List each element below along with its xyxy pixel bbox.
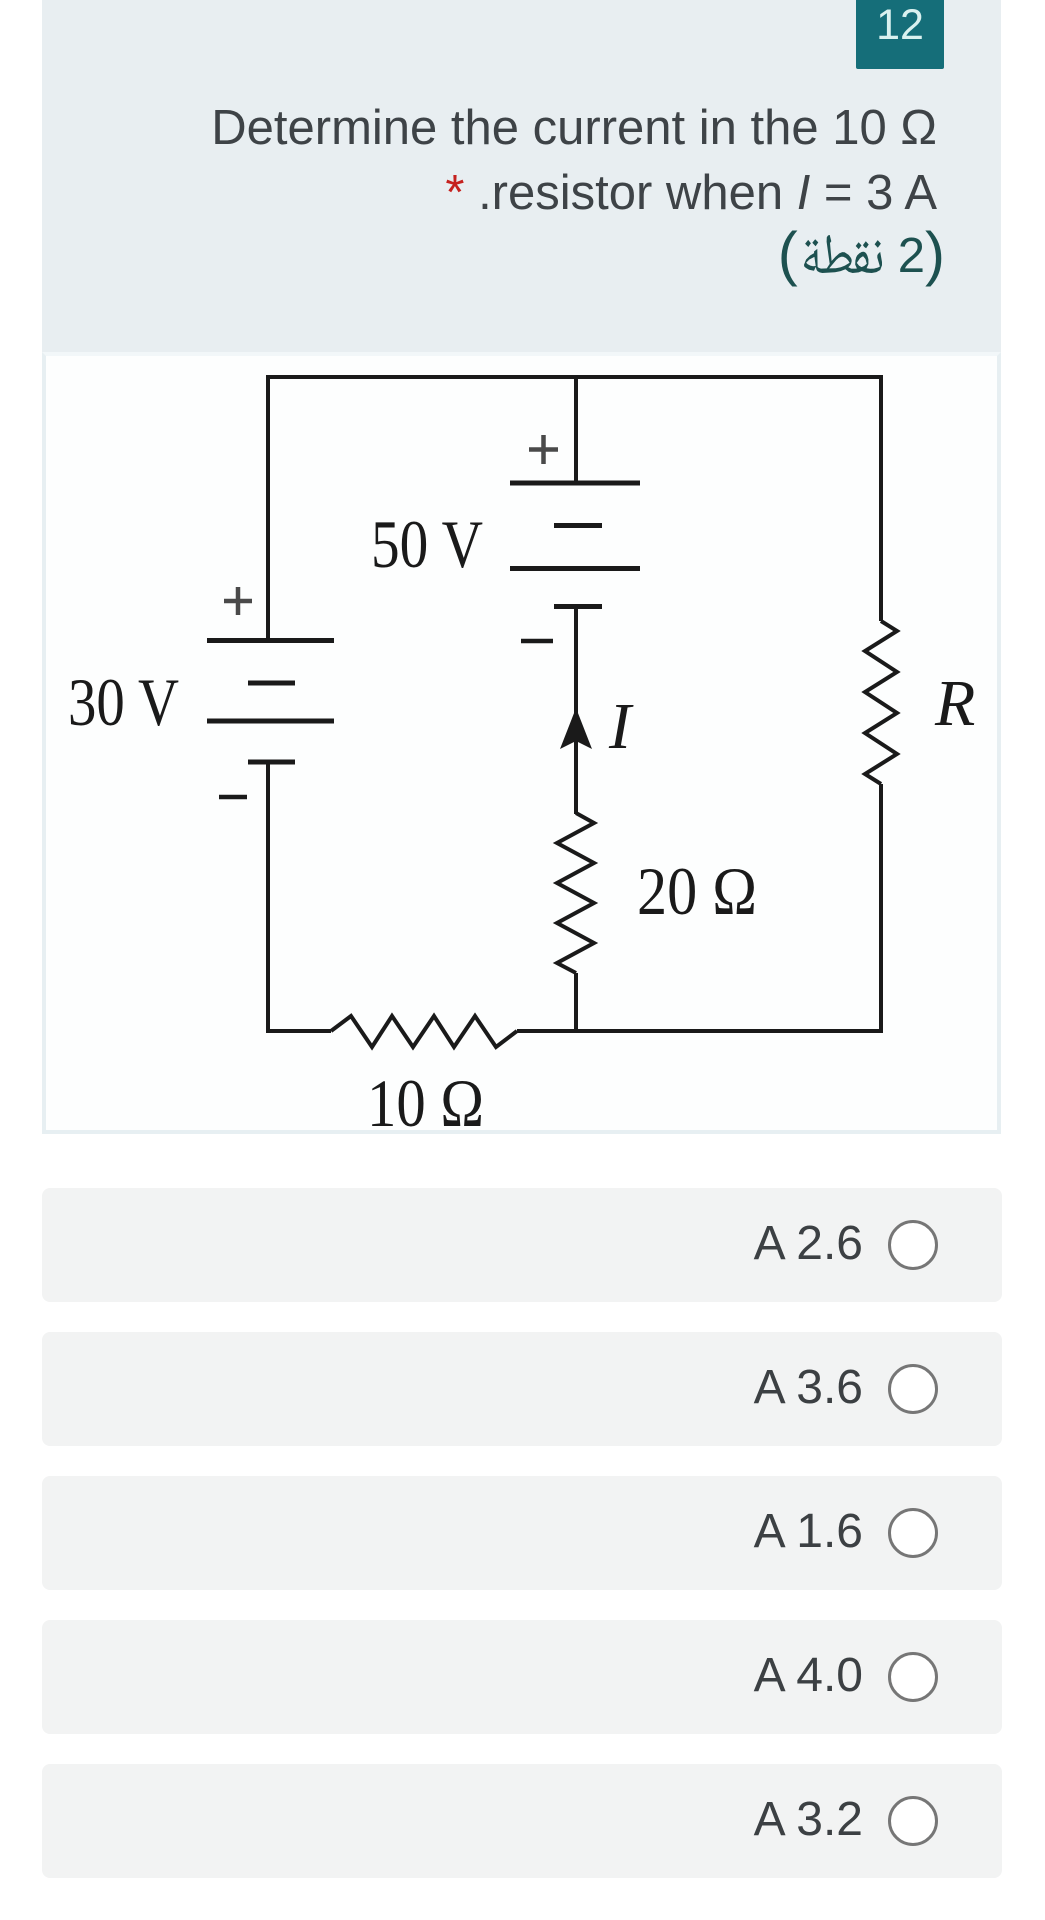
wire 50V stem from top rail bbox=[574, 375, 578, 483]
radio button 3 bbox=[888, 1508, 938, 1558]
question text bbox=[42, 96, 937, 226]
answer option A 4.0 bbox=[42, 1620, 1002, 1734]
svg-text:10 Ω: 10 Ω bbox=[367, 1065, 484, 1141]
svg-text:I: I bbox=[608, 690, 634, 763]
question number badge 12 bbox=[856, 0, 944, 69]
svg-text:R: R bbox=[934, 667, 975, 740]
answer option A 3.6 bbox=[42, 1332, 1002, 1446]
answer option A 1.6 bbox=[42, 1476, 1002, 1590]
wire top rail bbox=[268, 375, 881, 379]
wire right vertical (top rail to R) bbox=[879, 375, 883, 621]
svg-text:50 V: 50 V bbox=[371, 506, 483, 582]
50V plus sign bbox=[529, 435, 558, 464]
battery 50 V bbox=[510, 483, 640, 607]
wire 30V stem down to bottom rail bbox=[266, 762, 270, 1031]
50V plate short bbox=[554, 523, 602, 528]
wire bottom rail (10 ohm to right corner) bbox=[517, 1029, 883, 1033]
wire left vertical (top rail to 30V battery) bbox=[266, 375, 270, 639]
radio button 1 bbox=[888, 1220, 938, 1270]
circuit figure white card bbox=[42, 352, 1001, 1134]
radio button 4 bbox=[888, 1652, 938, 1702]
question header band bbox=[42, 0, 1001, 352]
30V plate long bbox=[207, 719, 334, 724]
svg-text:20 Ω: 20 Ω bbox=[637, 853, 757, 929]
50V plate long top bbox=[510, 481, 640, 486]
resistor 20 ohm (middle, vertical) bbox=[557, 813, 594, 973]
resistor R (right, vertical) bbox=[865, 621, 897, 784]
circuit schematic bbox=[0, 0, 1045, 1200]
answer option A 3.2 bbox=[42, 1764, 1002, 1878]
current arrow I (pointing up) bbox=[560, 708, 592, 749]
svg-text:30 V: 30 V bbox=[68, 664, 179, 740]
50V minus sign bbox=[521, 639, 553, 644]
wire middle branch (50V to 20 ohm) bbox=[574, 606, 578, 814]
answer option A 2.6 bbox=[42, 1188, 1002, 1302]
30V plate short bbox=[248, 681, 295, 686]
battery 30 V bbox=[207, 641, 334, 763]
question points line (2 نقطة) bbox=[600, 224, 945, 289]
radio button 2 bbox=[888, 1364, 938, 1414]
radio button 5 bbox=[888, 1796, 938, 1846]
50V plate short bottom bbox=[554, 604, 602, 609]
50V plate long bbox=[510, 566, 640, 571]
30V plus sign bbox=[224, 587, 252, 615]
wire R to bottom rail bbox=[879, 784, 883, 1033]
resistor 10 ohm (bottom, horizontal) bbox=[331, 1016, 517, 1047]
30V plate long top bbox=[207, 638, 334, 643]
30V plate short bottom bbox=[248, 760, 295, 765]
30V minus sign bbox=[219, 795, 247, 800]
wire 20 ohm to bottom rail bbox=[574, 973, 578, 1031]
wire bottom-left segment bbox=[266, 1029, 331, 1033]
